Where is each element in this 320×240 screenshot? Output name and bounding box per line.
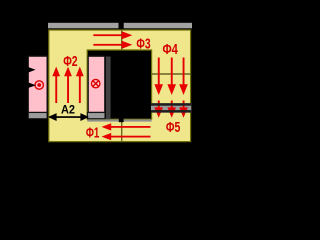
coil left end cap bbox=[28, 113, 47, 119]
coil shadow strip bbox=[106, 57, 111, 120]
flux Phi2 arrow 1 bbox=[55, 75, 57, 103]
svg-text:Φ4: Φ4 bbox=[163, 41, 179, 58]
gap flux Phi5 arrow 1 bbox=[158, 101, 160, 110]
bottom yoke joint line bbox=[121, 121, 123, 141]
flux Phi1 arrow 1 bbox=[110, 126, 151, 128]
flux Phi2 arrow 3 bbox=[79, 75, 81, 103]
flux Phi4 arrow 1 bbox=[158, 58, 160, 86]
svg-text:A2: A2 bbox=[61, 105, 75, 117]
flux Phi1 arrow 2 bbox=[110, 136, 151, 138]
dimension A2 right arrowhead bbox=[80, 113, 89, 121]
gap flux Phi5 arrow 3 bbox=[183, 101, 185, 110]
armature plate (top gray strip) bbox=[48, 23, 192, 29]
coil right end cap bbox=[87, 113, 105, 119]
coil pointer arrow lower bbox=[26, 82, 36, 89]
svg-text:Φ2: Φ2 bbox=[63, 53, 77, 70]
flux Phi2 arrow 2 bbox=[67, 75, 69, 103]
right limb air gap (gray spacer) bbox=[151, 103, 191, 112]
current in symbol (cross) bbox=[92, 79, 100, 87]
flux Phi3 arrow 1 bbox=[93, 34, 122, 36]
flux Phi3 arrow 2 bbox=[93, 44, 122, 46]
coil pointer arrow upper bbox=[26, 66, 36, 73]
svg-text:Φ3: Φ3 bbox=[136, 36, 150, 53]
core (yellow, with window hole) bbox=[49, 30, 191, 142]
air gap dark edge upper bbox=[151, 103, 191, 106]
right limb joint line bbox=[152, 73, 191, 75]
dimension A2 left arrowhead bbox=[48, 113, 57, 121]
coil right strip bbox=[88, 56, 105, 112]
flux Phi4 arrow 3 bbox=[183, 58, 185, 86]
top joint tick bbox=[119, 18, 124, 30]
air gap dark edge lower bbox=[151, 110, 191, 113]
svg-text:Φ5: Φ5 bbox=[166, 119, 180, 136]
svg-text:Φ1: Φ1 bbox=[86, 124, 99, 141]
current out symbol (dot) bbox=[35, 81, 43, 89]
flux Phi4 arrow 2 bbox=[171, 58, 173, 86]
bottom joint tick bbox=[119, 112, 124, 122]
top yoke joint line bbox=[121, 30, 123, 50]
gap flux Phi5 arrow 2 bbox=[171, 101, 173, 110]
dimension A2 line bbox=[56, 116, 83, 118]
window bottom gray strip bbox=[87, 119, 151, 121]
coil left strip bbox=[28, 56, 47, 112]
